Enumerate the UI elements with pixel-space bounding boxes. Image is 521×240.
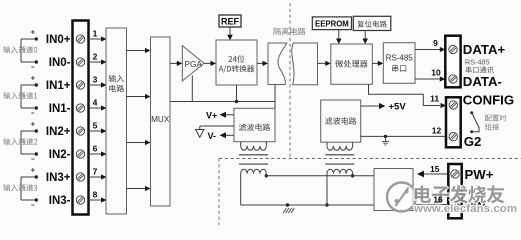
svg-text:7: 7: [93, 167, 98, 177]
watermark 电子发烧友: [415, 185, 505, 203]
pin 7 number label: [93, 167, 98, 177]
wire T1 right leg: [265, 174, 268, 178]
label 输入通道3: [3, 184, 37, 191]
wire pin 8 to input circuit: [89, 197, 107, 202]
svg-text:9: 9: [433, 38, 438, 48]
wire input circuit to MUX y142.5: [127, 140, 151, 145]
pin 4 number label: [93, 98, 98, 108]
label IN0-: [49, 57, 71, 69]
isolation barrier dashed vertical: [289, 3, 291, 159]
wire reset to MCU: [362, 31, 368, 45]
svg-text:5: 5: [93, 121, 98, 131]
wire EEPROM to MCU: [336, 30, 342, 44]
pin 5 screw terminal: [76, 127, 84, 135]
svg-text:+5V: +5V: [389, 102, 407, 113]
wire pin 1 to input circuit: [89, 36, 107, 41]
wire power rail top: [266, 175, 374, 177]
wire T2 right leg: [351, 174, 354, 178]
pin 4 screw terminal: [76, 104, 84, 112]
svg-text:V+: V+: [206, 110, 217, 120]
wire V- output: [208, 131, 235, 141]
wire input circuit to MUX y96.5: [127, 94, 151, 99]
pin 8 number label: [93, 190, 98, 200]
label DATA-: [463, 74, 502, 89]
op-amp U3 PGA: [182, 46, 204, 81]
node input channel 0 source: [21, 30, 38, 67]
label G2: [464, 134, 482, 149]
svg-text:2: 2: [93, 52, 98, 62]
wire G2 pin12: [361, 135, 446, 138]
svg-text:RS-485: RS-485: [465, 57, 490, 66]
block U8 digital filter 滤波电路: [321, 100, 361, 142]
wire PW- pin16: [413, 204, 448, 206]
label 隔离电路: [274, 28, 306, 36]
watermark logo: [387, 183, 416, 212]
junction ground node: [286, 203, 289, 206]
wire analog V+ rail: [170, 75, 275, 108]
pin 16 number label: [433, 195, 443, 205]
watermark url: [413, 203, 517, 215]
svg-text:3: 3: [93, 75, 98, 85]
block isolation left half: [268, 43, 287, 85]
svg-text:11: 11: [430, 93, 439, 103]
block U10 reset circuit 复位电路: [353, 16, 391, 30]
label IN2+: [46, 126, 71, 138]
svg-text:1: 1: [93, 29, 98, 39]
wire input circuit to MUX y50.5: [127, 48, 151, 53]
block isolation right half: [292, 43, 318, 85]
svg-text:4: 4: [93, 98, 98, 108]
svg-text:www.elecfans.com: www.elecfans.com: [413, 203, 517, 215]
pin 16 screw terminal: [451, 202, 459, 210]
pin 6 screw terminal: [76, 150, 84, 158]
wire +5V output: [361, 102, 407, 113]
label IN2-: [49, 149, 71, 161]
block U4 REF reference: [219, 15, 241, 27]
pin 2 screw terminal: [76, 58, 84, 66]
svg-text:IN2-: IN2-: [49, 149, 71, 161]
connector J3 CONFIG terminal block: [446, 97, 461, 147]
svg-text:IN2+: IN2+: [46, 126, 71, 138]
label RS-485 serial note: [465, 57, 490, 66]
ground digital G2 symbol: [382, 136, 389, 145]
wire PGA to ADC: [204, 61, 216, 66]
wire pin 6 to input circuit: [89, 151, 107, 156]
transformer T1 analog supply: [239, 142, 268, 174]
node input channel 2 source: [21, 122, 38, 159]
pin 12 screw terminal: [449, 133, 457, 141]
block U6 analog filter 滤波电路: [234, 108, 275, 141]
svg-text:PGA: PGA: [185, 59, 203, 69]
ground chassis symbol: [283, 208, 294, 213]
pin 7 screw terminal: [76, 173, 84, 181]
svg-text:RS-485: RS-485: [386, 54, 414, 63]
svg-text:12: 12: [432, 126, 442, 136]
switch S1 config jumper: [470, 111, 479, 133]
label CONFIG: [463, 93, 514, 108]
pin 2 number label: [93, 52, 98, 62]
block U9 EEPROM: [312, 17, 351, 30]
label DATA+: [463, 42, 506, 57]
label 输入通道2: [3, 138, 37, 145]
pin 1 screw terminal: [76, 35, 84, 43]
block U7 power circuit: [374, 169, 413, 211]
svg-text:IN1-: IN1-: [49, 103, 71, 115]
pin 6 number label: [93, 144, 98, 154]
wire ADC to isolation: [257, 61, 268, 66]
svg-text:V-: V-: [208, 131, 217, 141]
label PW-: [465, 199, 490, 214]
svg-text:EEPROM: EEPROM: [315, 19, 349, 28]
pin 11 screw terminal: [449, 101, 457, 109]
label IN1-: [49, 103, 71, 115]
wire pin 4 to input circuit: [89, 105, 107, 110]
transformer T2 digital supply: [325, 142, 354, 173]
wire pin 2 to input circuit: [89, 59, 107, 64]
wire pin 3 to input circuit: [89, 82, 107, 87]
block U12 RS-485 serial: [383, 43, 415, 84]
label 配置时短接: [485, 115, 507, 131]
label 输入通道0: [3, 46, 37, 53]
wire T2 left leg: [325, 174, 328, 207]
wire analog ground: [196, 126, 234, 137]
pin 9 screw terminal: [449, 45, 457, 53]
wire DATA- pin10: [415, 68, 445, 82]
wire isolation to MCU: [318, 61, 331, 66]
svg-text:G2: G2: [464, 134, 482, 149]
pin 3 number label: [93, 75, 98, 85]
svg-text:IN3-: IN3-: [49, 195, 71, 207]
svg-text:CONFIG: CONFIG: [463, 93, 514, 108]
block U2 MUX: [151, 37, 171, 206]
wire pin 7 to input circuit: [89, 174, 107, 179]
wire power rail bottom: [241, 204, 374, 206]
label IN1+: [46, 80, 71, 92]
svg-text:IN0+: IN0+: [46, 34, 71, 46]
svg-text:PW+: PW+: [465, 167, 494, 182]
svg-text:REF: REF: [221, 16, 240, 26]
connector J2 DATA terminal block: [445, 36, 460, 88]
node input channel 1 source: [21, 76, 38, 113]
pin 12 number label: [432, 126, 442, 136]
pin 1 number label: [93, 29, 98, 39]
block U11 microprocessor 微处理器: [331, 44, 373, 84]
wire MCU to CONFIG pin11: [369, 84, 447, 108]
label 输入通道1: [3, 92, 37, 99]
wire T1 left leg: [240, 174, 242, 205]
wire REF to ADC: [227, 27, 233, 40]
label IN0+: [46, 34, 71, 46]
label PW+: [465, 167, 494, 182]
pin 5 number label: [93, 121, 98, 131]
pin 15 screw terminal: [451, 170, 459, 178]
svg-text:IN0-: IN0-: [49, 57, 71, 69]
connector J1 input terminal block: [73, 21, 89, 215]
node input channel 3 source: [21, 168, 38, 205]
svg-text:IN3+: IN3+: [46, 172, 71, 184]
wire MUX to PGA: [170, 61, 182, 66]
pin 8 screw terminal: [76, 196, 84, 204]
label 串口通讯: [466, 67, 494, 74]
block U5 24-bit A/D converter: [216, 40, 257, 85]
svg-text:6: 6: [93, 144, 98, 154]
label IN3+: [46, 172, 71, 184]
junction ADC rail: [235, 100, 238, 103]
svg-text:15: 15: [430, 164, 440, 174]
isolation barrier dashed vertical left: [218, 159, 220, 226]
wire PW+ pin15: [417, 164, 448, 177]
isolation barrier dashed horizontal: [219, 158, 521, 160]
wire V+ output: [206, 110, 234, 120]
wire pin 5 to input circuit: [89, 128, 107, 133]
svg-text:MUX: MUX: [151, 115, 170, 124]
svg-text:DATA-: DATA-: [463, 74, 502, 89]
pin 10 screw terminal: [449, 75, 457, 83]
svg-text:IN1+: IN1+: [46, 80, 71, 92]
wire DATA+ pin9: [415, 38, 445, 52]
svg-text:8: 8: [93, 190, 98, 200]
connector J4 power terminal block: [448, 164, 461, 218]
svg-text:10: 10: [431, 68, 441, 78]
label IN3-: [49, 195, 71, 207]
svg-text:DATA+: DATA+: [463, 42, 506, 57]
block U1 input circuit 输入电路: [106, 28, 127, 214]
wire MCU to RS-485: [372, 61, 383, 66]
pin 3 screw terminal: [76, 81, 84, 89]
wire input circuit to MUX y188.5: [127, 186, 151, 191]
